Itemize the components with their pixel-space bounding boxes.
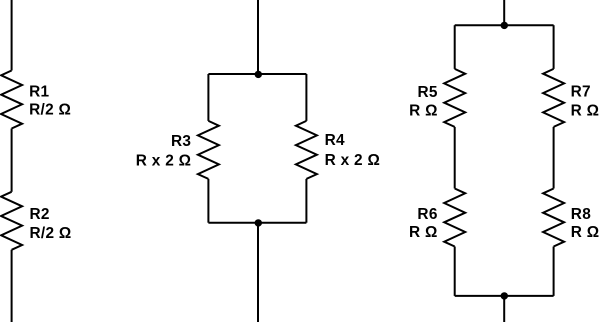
wire right bottom rail: [455, 295, 554, 297]
node top middle junction: [255, 71, 262, 78]
wire right top stub: [503, 0, 505, 25]
wire middle bottom stub: [257, 223, 259, 322]
svg-text:R/2 Ω: R/2 Ω: [30, 225, 72, 242]
wire left column bottom: [11, 250, 13, 322]
svg-text:R1: R1: [29, 83, 49, 100]
svg-text:R5: R5: [418, 84, 438, 101]
wire left column top: [11, 0, 13, 71]
resistor R2: [1, 192, 22, 250]
wire right left middle: [454, 127, 456, 189]
svg-text:R Ω: R Ω: [571, 224, 600, 241]
node top right junction: [501, 22, 508, 29]
wire right top rail: [455, 24, 554, 26]
wire middle top rail: [208, 73, 306, 75]
wire right right upper: [553, 25, 555, 69]
wire middle top stub: [257, 0, 259, 74]
wire right left lower: [454, 247, 456, 296]
svg-text:R7: R7: [571, 84, 591, 101]
resistor R3: [198, 121, 219, 179]
wire right right lower: [553, 247, 555, 296]
resistor R4: [296, 121, 317, 179]
svg-text:R8: R8: [571, 206, 591, 223]
resistor R7: [543, 69, 564, 127]
svg-text:R Ω: R Ω: [409, 102, 438, 119]
wire middle left lower: [207, 179, 209, 223]
svg-text:R3: R3: [171, 133, 191, 150]
wire right bottom stub: [503, 296, 505, 322]
svg-text:R Ω: R Ω: [571, 102, 600, 119]
svg-text:R4: R4: [325, 132, 345, 149]
wire right right middle: [553, 127, 555, 189]
resistor R1: [1, 71, 22, 129]
resistor R5: [444, 69, 465, 127]
svg-text:R x 2 Ω: R x 2 Ω: [136, 152, 192, 169]
wire middle left upper: [207, 74, 209, 121]
wire left column middle: [11, 129, 13, 192]
wire middle right lower: [305, 179, 307, 223]
node bottom middle junction: [255, 219, 262, 226]
resistor R6: [444, 189, 465, 247]
wire middle bottom rail: [208, 222, 306, 224]
svg-text:R/2 Ω: R/2 Ω: [29, 102, 71, 119]
svg-text:R x 2 Ω: R x 2 Ω: [325, 152, 381, 169]
svg-text:R Ω: R Ω: [409, 224, 438, 241]
wire right left upper: [454, 25, 456, 69]
svg-text:R6: R6: [417, 206, 437, 223]
resistor R8: [543, 189, 564, 247]
node bottom right junction: [501, 292, 508, 299]
wire middle right upper: [305, 74, 307, 121]
svg-text:R2: R2: [30, 206, 50, 223]
